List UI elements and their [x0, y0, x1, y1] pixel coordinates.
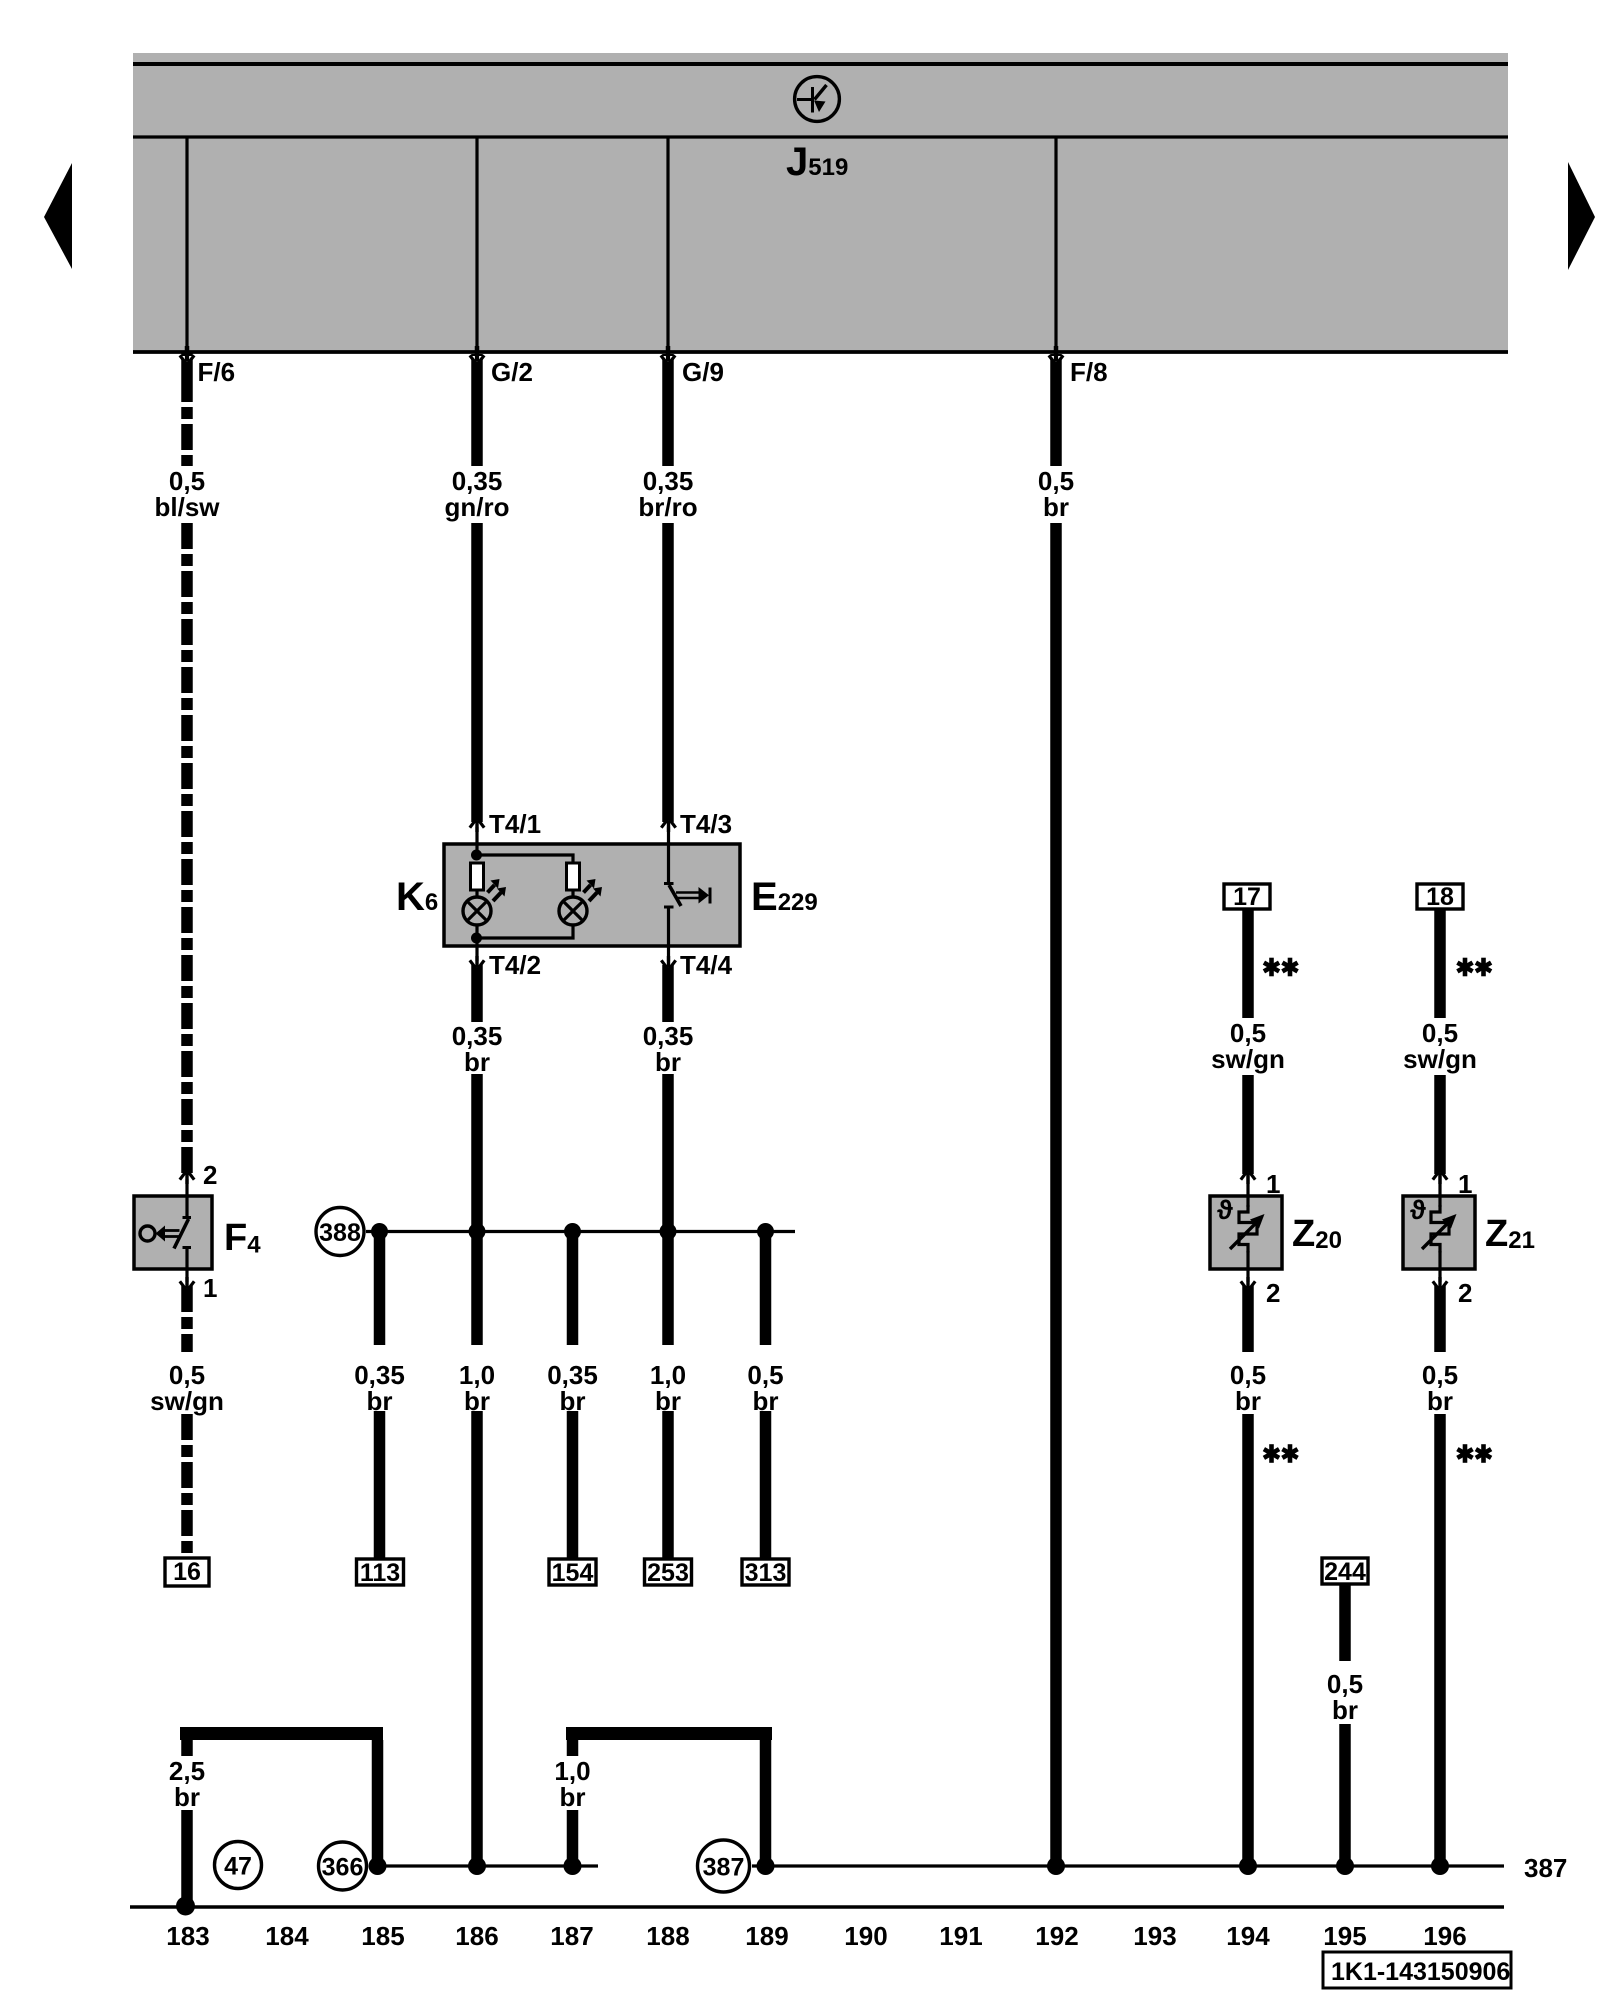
pin F/8 on J519 [1049, 137, 1108, 387]
junction dot ground at 244 wire [1336, 1857, 1354, 1875]
svg-text:br: br [174, 1782, 200, 1812]
svg-text:br: br [753, 1386, 779, 1416]
right page arrow [1568, 162, 1595, 270]
svg-text:br/ro: br/ro [638, 492, 697, 522]
svg-text:gn/ro: gn/ro [445, 492, 510, 522]
svg-text:br: br [464, 1047, 490, 1077]
junction dot ground at 189-leg [757, 1857, 775, 1875]
svg-text:2: 2 [1266, 1278, 1280, 1308]
connection circle 366 [319, 1842, 367, 1890]
pin T4/3 [661, 809, 732, 839]
wire 0,5 br (244 to ground) [1327, 1584, 1363, 1866]
svg-text:193: 193 [1133, 1921, 1176, 1951]
svg-text:16: 16 [173, 1558, 201, 1586]
svg-text:388: 388 [319, 1219, 361, 1247]
pin 2 of Z21 [1433, 1277, 1473, 1308]
svg-text:194: 194 [1226, 1921, 1270, 1951]
junction dot ground at F/8 wire [1047, 1857, 1065, 1875]
terminal box 253 [645, 1559, 692, 1587]
junction dot 388 rail at 188-wire [660, 1223, 677, 1240]
svg-text:br: br [1043, 492, 1069, 522]
fuse box F4 [134, 1175, 212, 1287]
connection symbol circle on J519 [795, 77, 840, 122]
wire 0,35 br (to terminal 113) [354, 1232, 405, 1558]
wire 0,35 br (T4/4 down) [643, 965, 694, 1232]
node junction dot K6 top [471, 850, 482, 861]
asterisks note Z20 bottom [1269, 1444, 1274, 1463]
svg-text:18: 18 [1426, 883, 1454, 911]
left page arrow [44, 163, 72, 269]
node junction dot K6 bottom [471, 933, 482, 944]
svg-text:185: 185 [361, 1921, 404, 1951]
svg-text:br: br [1427, 1386, 1453, 1416]
svg-text:sw/gn: sw/gn [150, 1386, 224, 1416]
svg-text:T4/2: T4/2 [489, 950, 541, 980]
svg-text:189: 189 [745, 1921, 788, 1951]
wire 0,5 bl/sw dashed (F/6 to F4) [154, 353, 220, 1174]
wire resistor to lamp left [475, 890, 478, 898]
svg-text:196: 196 [1423, 1921, 1466, 1951]
svg-text:1K1-143150906: 1K1-143150906 [1331, 1958, 1510, 1986]
wire resistor to lamp right [571, 890, 574, 898]
svg-text:br: br [560, 1386, 586, 1416]
svg-text:366: 366 [322, 1854, 364, 1882]
svg-text:T4/1: T4/1 [489, 809, 541, 839]
svg-text:192: 192 [1035, 1921, 1078, 1951]
terminal box 313 [742, 1559, 789, 1587]
wire 1,0 br (to terminal 253) [650, 1232, 686, 1558]
junction dot on border at 183 [176, 1897, 195, 1916]
wire 0,5 sw/gn (18 to Z21) [1403, 909, 1477, 1174]
svg-text:17: 17 [1233, 883, 1261, 911]
resistor in K6 (right) [567, 863, 580, 890]
junction rail 388 [366, 1230, 795, 1233]
wire 0,35 br/ro (G/9 to T4/3) [638, 354, 697, 822]
svg-text:244: 244 [1324, 1558, 1366, 1586]
svg-text:br: br [560, 1782, 586, 1812]
wire 0,5 br (Z20 to ground) [1230, 1286, 1266, 1866]
asterisks note Z20 top [1269, 958, 1274, 977]
component box K6 / E229 [444, 844, 740, 946]
wire inside K6 top [477, 855, 573, 863]
svg-text:br: br [1235, 1386, 1261, 1416]
J519 bus bar bottom edge [133, 350, 1508, 354]
svg-text:1: 1 [203, 1273, 217, 1303]
svg-text:47: 47 [224, 1853, 252, 1881]
pin G/2 on J519 [470, 137, 533, 387]
connection circle 388 [316, 1208, 364, 1256]
terminal box 18 [1417, 883, 1463, 911]
svg-text:183: 183 [166, 1921, 209, 1951]
svg-text:T4/3: T4/3 [680, 809, 732, 839]
connection circle 47 [215, 1842, 262, 1889]
resistor in K6 (left) [471, 863, 484, 890]
junction dot ground at Z21 wire [1431, 1857, 1449, 1875]
svg-text:G/2: G/2 [491, 357, 533, 387]
terminal box 244 [1322, 1558, 1368, 1586]
wire 0,35 br (to terminal 154) [547, 1232, 598, 1558]
lamp K6 left [463, 879, 506, 925]
svg-text:br: br [655, 1047, 681, 1077]
svg-text:186: 186 [455, 1921, 498, 1951]
pin G/9 on J519 [661, 137, 724, 387]
svg-text:187: 187 [550, 1921, 593, 1951]
junction dot ground at 186-wire [468, 1857, 486, 1875]
pin T4/4 [661, 950, 732, 980]
wire 0,5 br (Z21 to ground) [1422, 1286, 1458, 1866]
svg-text:190: 190 [844, 1921, 887, 1951]
connection circle 387 [698, 1840, 750, 1892]
asterisks note Z21 top [1463, 958, 1468, 977]
svg-text:313: 313 [745, 1559, 787, 1587]
pin 1 of F4 [180, 1273, 218, 1303]
pin T4/1 [470, 809, 541, 855]
heater element Z21 [1403, 1175, 1475, 1287]
svg-text:188: 188 [646, 1921, 689, 1951]
pin 2 of Z20 [1241, 1277, 1281, 1308]
svg-text:sw/gn: sw/gn [1211, 1044, 1285, 1074]
terminal box 113 [357, 1559, 404, 1587]
junction dot ground at 185-leg [369, 1857, 387, 1875]
wire 0,5 sw/gn dashed (F4 to terminal 16) [150, 1286, 224, 1558]
svg-text:G/9: G/9 [682, 357, 724, 387]
lamp K6 right [559, 879, 602, 925]
bottom border line [130, 1905, 1504, 1909]
wire 0,5 br (to terminal 313) [747, 1232, 783, 1558]
switch E229 [664, 824, 712, 962]
wire lamp bottoms join [477, 925, 573, 938]
heater element Z20 [1210, 1175, 1282, 1287]
ground elbow wire 1,0 br [554, 1734, 772, 1867]
ground rail 387 right segment [752, 1864, 1504, 1867]
svg-text:br: br [655, 1386, 681, 1416]
svg-text:F/6: F/6 [198, 357, 236, 387]
pin F/6 on J519 [180, 137, 235, 387]
ground rail 387 left segment [371, 1864, 598, 1867]
svg-text:387: 387 [1524, 1853, 1567, 1883]
svg-text:T4/4: T4/4 [680, 950, 733, 980]
svg-text:113: 113 [360, 1559, 400, 1587]
svg-text:bl/sw: bl/sw [154, 492, 220, 522]
junction dot ground at Z20 wire [1239, 1857, 1257, 1875]
wire 1,0 br (G/2 branch down) [459, 1232, 495, 1866]
pin 1 of Z21 [1433, 1169, 1473, 1199]
terminal box 16 [165, 1558, 209, 1586]
svg-text:ϑ: ϑ [1410, 1195, 1426, 1225]
svg-text:195: 195 [1323, 1921, 1366, 1951]
svg-text:184: 184 [265, 1921, 309, 1951]
junction dot 388 rail right [757, 1223, 774, 1240]
wire 0,35 gn/ro (G/2 to T4/1) [445, 354, 510, 822]
junction dot 388 rail at 186-wire [469, 1223, 486, 1240]
svg-text:F/8: F/8 [1070, 357, 1108, 387]
junction dot ground at 187-leg [564, 1857, 582, 1875]
junction dot 388 rail left [371, 1223, 388, 1240]
wire 0,5 sw/gn (17 to Z20) [1211, 909, 1285, 1174]
svg-text:2: 2 [1458, 1278, 1472, 1308]
svg-text:ϑ: ϑ [1217, 1195, 1233, 1225]
svg-text:253: 253 [647, 1559, 689, 1587]
svg-text:191: 191 [939, 1921, 982, 1951]
ground elbow wire 2,5 br [169, 1734, 383, 1902]
terminal box 154 [549, 1559, 596, 1587]
svg-text:br: br [1332, 1695, 1358, 1725]
asterisks note Z21 bottom [1463, 1444, 1468, 1463]
junction dot 388 rail at 187-wire [564, 1223, 581, 1240]
drawing number box [1323, 1952, 1511, 1988]
pin T4/2 [470, 950, 541, 980]
svg-text:2: 2 [203, 1160, 217, 1190]
wire 0,5 br (F/8 to ground junction) [1038, 354, 1074, 1866]
pin 2 of F4 [180, 1160, 218, 1190]
svg-text:br: br [464, 1386, 490, 1416]
wire 0,35 br (T4/2 down) [452, 965, 503, 1232]
svg-text:387: 387 [703, 1854, 745, 1882]
terminal box 17 [1224, 883, 1270, 911]
svg-text:br: br [367, 1386, 393, 1416]
svg-text:154: 154 [552, 1559, 594, 1587]
wire K6 bottom exit [475, 938, 478, 963]
pin 1 of Z20 [1241, 1169, 1281, 1199]
svg-text:sw/gn: sw/gn [1403, 1044, 1477, 1074]
control unit J519 bus bar [133, 53, 1508, 353]
